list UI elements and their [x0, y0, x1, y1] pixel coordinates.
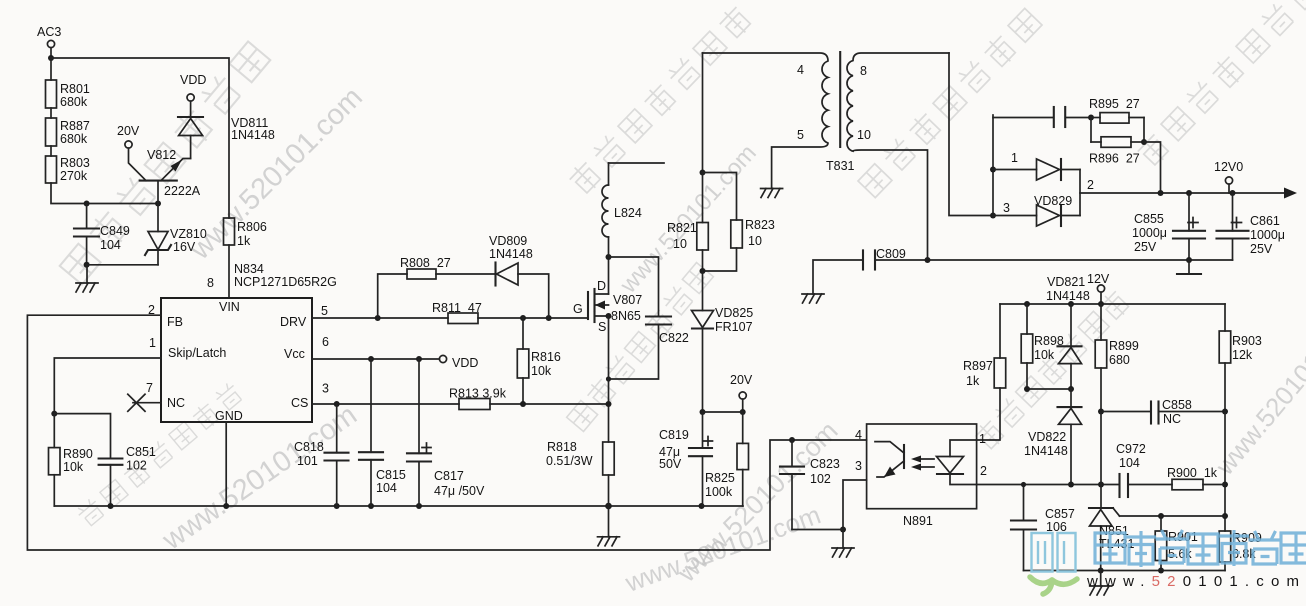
- optocoupler light arrows: [911, 456, 934, 471]
- inductor L824: [602, 163, 642, 257]
- wire AC3 node down to R801: [50, 58, 52, 80]
- diode VD829 upper (pin1): [993, 151, 1080, 180]
- wire REF line: [1120, 515, 1226, 517]
- svg-text:www.520101.com: www.520101.com: [184, 81, 369, 266]
- svg-text:N834: N834: [234, 262, 264, 276]
- svg-text:680: 680: [1109, 353, 1130, 367]
- node C849 top: [84, 201, 90, 207]
- node C822 return: [606, 376, 611, 381]
- svg-text:GND: GND: [215, 409, 243, 423]
- transistor N851 TL431: [1089, 508, 1134, 571]
- node C858/R903: [1222, 409, 1228, 415]
- svg-text:C822: C822: [659, 331, 689, 345]
- wire pin8 to rectifier: [949, 53, 993, 216]
- optocoupler phototransistor: [875, 442, 904, 477]
- node R808 branch left: [375, 315, 381, 321]
- ground under primary bus: [598, 506, 620, 546]
- wire C809 to ground: [813, 260, 862, 294]
- capacitor C822 snubber: [609, 257, 689, 379]
- svg-text:DRV: DRV: [280, 315, 307, 329]
- capacitor C819 47u 50V polarized: [659, 412, 713, 506]
- blue logo layer: [1030, 530, 1306, 594]
- svg-text:0.51/3W: 0.51/3W: [546, 454, 593, 468]
- wire secondary return bus: [876, 259, 1233, 261]
- ground under C809: [802, 294, 824, 303]
- svg-text:4: 4: [797, 63, 804, 77]
- resistor R811 47: [432, 301, 482, 324]
- node R816 top: [520, 315, 526, 321]
- node R899/C858: [1098, 409, 1104, 415]
- node pin1/R890/C851: [51, 411, 57, 417]
- svg-text:VIN: VIN: [219, 300, 240, 314]
- svg-text:R900 1k: R900 1k: [1167, 466, 1218, 480]
- svg-text:C857: C857: [1045, 507, 1075, 521]
- svg-text:6: 6: [322, 335, 329, 349]
- resistor R801 680k: [46, 80, 90, 109]
- svg-text:D: D: [597, 279, 606, 293]
- capacitor C817 47u/50V polarized: [407, 359, 485, 506]
- wire FB pin2 loop to optocoupler pin4: [27, 315, 866, 550]
- node REF right: [1222, 513, 1228, 519]
- svg-text:1N4148: 1N4148: [231, 128, 275, 142]
- svg-text:104: 104: [376, 481, 397, 495]
- svg-text:10: 10: [748, 234, 762, 248]
- svg-text:16V: 16V: [173, 240, 196, 254]
- svg-text:NC: NC: [1163, 412, 1181, 426]
- svg-text:Vcc: Vcc: [284, 347, 305, 361]
- svg-text:NC: NC: [167, 396, 185, 410]
- svg-text:20V: 20V: [730, 373, 753, 387]
- svg-text:R823: R823: [745, 218, 775, 232]
- svg-text:2222A: 2222A: [164, 184, 201, 198]
- svg-text:3: 3: [322, 382, 329, 396]
- svg-text:VD829: VD829: [1034, 194, 1072, 208]
- node C855 top: [1186, 190, 1192, 196]
- node AC3 junction: [48, 55, 54, 61]
- svg-text:8N65: 8N65: [611, 309, 641, 323]
- svg-text:L824: L824: [614, 206, 642, 220]
- svg-text:R821: R821: [667, 221, 697, 235]
- svg-text:R818: R818: [547, 440, 577, 454]
- wire bottom C849 to VZ810: [87, 264, 158, 266]
- svg-text:1N4148: 1N4148: [1046, 289, 1090, 303]
- svg-text:VZ810: VZ810: [170, 227, 207, 241]
- svg-text:12V0: 12V0: [1214, 160, 1243, 174]
- resistor R818 0.51/3W: [546, 440, 614, 506]
- node C861 top: [1230, 190, 1236, 196]
- svg-text:8: 8: [207, 276, 214, 290]
- svg-text:www.520101.com: www.520101.com: [671, 416, 844, 589]
- svg-text:T831: T831: [826, 159, 855, 173]
- diode VD822 1N4148: [1024, 389, 1082, 485]
- svg-text:C972: C972: [1116, 442, 1146, 456]
- svg-text:R803: R803: [60, 156, 90, 170]
- capacitor snubber series: [993, 107, 1091, 127]
- resistor R901 5.6k: [1155, 516, 1198, 571]
- node clamp top: [700, 170, 706, 176]
- svg-text:C823: C823: [810, 457, 840, 471]
- svg-text:100k: 100k: [705, 485, 733, 499]
- capacitor C815 104: [359, 359, 406, 506]
- transistor Q V807 8N65 MOSFET: [573, 279, 642, 334]
- svg-text:C809: C809: [876, 247, 906, 261]
- capacitor C823 102: [780, 440, 843, 530]
- node R901 top: [1158, 513, 1164, 519]
- wire R801-R887: [50, 108, 52, 118]
- diode VD825 FR107: [692, 271, 754, 412]
- ground under pin3: [832, 530, 854, 558]
- resistor R895 27: [1089, 97, 1144, 123]
- node C849 bottom: [84, 262, 90, 268]
- svg-text:FR107: FR107: [715, 320, 753, 334]
- wire GND pin stub: [225, 422, 227, 506]
- node C815 top: [368, 356, 374, 362]
- svg-text:12V: 12V: [1087, 272, 1110, 286]
- resistor R808 27: [400, 256, 451, 279]
- svg-text:3: 3: [855, 459, 862, 473]
- IC pin names: [167, 300, 308, 423]
- wire R806 to pin8: [228, 245, 230, 298]
- resistor R898 10k: [1021, 304, 1064, 389]
- svg-text:1k: 1k: [237, 234, 251, 248]
- node base of V812: [155, 201, 161, 207]
- wire source down to R818: [608, 316, 610, 442]
- terminal VDD top: [180, 73, 206, 101]
- wire L824 top stub: [609, 162, 665, 164]
- wire TL431 cathode: [1100, 412, 1102, 509]
- node snubber out: [1141, 139, 1147, 145]
- node drain: [606, 254, 612, 260]
- svg-text:www.520101.com: www.520101.com: [1086, 573, 1306, 590]
- svg-text:V807: V807: [613, 293, 642, 307]
- svg-text:FB: FB: [167, 315, 183, 329]
- wire drain: [608, 257, 610, 294]
- terminal 20V: [117, 124, 140, 148]
- svg-text:25V: 25V: [1250, 242, 1273, 256]
- svg-text:104: 104: [1119, 456, 1140, 470]
- capacitor C818 101: [294, 404, 349, 506]
- svg-text:VD825: VD825: [715, 306, 753, 320]
- svg-text:R895 27: R895 27: [1089, 97, 1140, 111]
- resistor R803 270k: [46, 156, 90, 183]
- svg-text:2: 2: [980, 464, 987, 478]
- svg-text:VDD: VDD: [180, 73, 206, 87]
- wire 20V to V812 collector: [129, 148, 147, 181]
- svg-text:G: G: [573, 302, 583, 316]
- node bus junctions: [108, 503, 705, 510]
- svg-text:AC3: AC3: [37, 25, 61, 39]
- svg-text:R825: R825: [705, 471, 735, 485]
- wire cathode join: [1079, 170, 1081, 216]
- transistor V812 2222A: [140, 148, 201, 204]
- wire clamp chain from pin4 wire down: [702, 53, 704, 173]
- resistor R900 1k: [1167, 466, 1218, 490]
- svg-text:101: 101: [297, 454, 318, 468]
- wire VD809 to DRV wire: [518, 274, 549, 318]
- node anode lower: [990, 213, 996, 219]
- svg-text:R890: R890: [63, 447, 93, 461]
- node R816 bottom on CS wire: [520, 401, 526, 407]
- pin 7 NC cross: [128, 394, 161, 411]
- resistor R903 12k: [1219, 304, 1262, 412]
- svg-text:N891: N891: [903, 514, 933, 528]
- wire DRV pin5 to gate: [312, 317, 588, 319]
- capacitor C809: [863, 247, 906, 270]
- resistor R909 6.8k: [1219, 531, 1262, 571]
- svg-text:C858: C858: [1162, 398, 1192, 412]
- node R900 right: [1222, 482, 1228, 488]
- svg-text:1: 1: [979, 432, 986, 446]
- resistor R899 680: [1095, 304, 1139, 412]
- wire CS pin3: [312, 403, 609, 405]
- diode VD811 1N4148: [178, 101, 275, 158]
- diode VD829 lower (pin3): [993, 194, 1080, 226]
- ground under C849: [76, 265, 98, 292]
- capacitor C858 NC: [1101, 398, 1225, 426]
- optocoupler N891 box: [867, 424, 977, 509]
- resistor R896 27: [1089, 118, 1144, 166]
- svg-text:R806: R806: [237, 220, 267, 234]
- node pin10 junction: [925, 257, 931, 263]
- svg-text:R887: R887: [60, 119, 90, 133]
- transformer T831 core: [839, 52, 841, 147]
- svg-text:1000μ: 1000μ: [1132, 226, 1167, 240]
- node C855 bottom: [1186, 257, 1192, 263]
- svg-text:102: 102: [126, 459, 147, 473]
- svg-text:R896 27: R896 27: [1089, 152, 1140, 166]
- node C823 top: [789, 437, 795, 443]
- svg-text:VD822: VD822: [1028, 430, 1066, 444]
- resistor R825 100k: [705, 412, 749, 506]
- capacitor C861 1000u 25V polarized: [1217, 193, 1286, 260]
- node C817 top: [416, 356, 422, 362]
- node R901 bottom: [1158, 568, 1164, 574]
- node anode upper: [990, 167, 996, 173]
- node snubber/output: [1158, 190, 1164, 196]
- node join left: [1024, 386, 1030, 392]
- capacitor C857 106: [1011, 485, 1075, 571]
- capacitor C849 104: [74, 204, 130, 265]
- node source/CS junction: [606, 401, 612, 407]
- svg-text:5: 5: [797, 128, 804, 142]
- terminal AC3: [37, 25, 61, 58]
- svg-text:VDD: VDD: [452, 356, 478, 370]
- svg-text:12k: 12k: [1232, 348, 1253, 362]
- resistor R821 10: [667, 173, 708, 272]
- svg-text:270k: 270k: [60, 169, 88, 183]
- wire R887-R803: [50, 146, 52, 156]
- svg-text:102: 102: [810, 472, 831, 486]
- node C857 top: [1021, 482, 1026, 487]
- svg-text:C849: C849: [100, 224, 130, 238]
- wire primary ground bus: [54, 505, 743, 507]
- wire snubber to output: [1144, 142, 1161, 193]
- wire Vcc pin6 to VDD terminal: [312, 358, 439, 360]
- svg-text:R897: R897: [963, 359, 993, 373]
- wire R808 branch: [378, 274, 407, 318]
- svg-text:NCP1271D65R2G: NCP1271D65R2G: [234, 275, 337, 289]
- svg-text:R808 27: R808 27: [400, 256, 451, 270]
- svg-text:1: 1: [149, 336, 156, 350]
- svg-text:2: 2: [1087, 178, 1094, 192]
- svg-text:104: 104: [100, 238, 121, 252]
- node TL431 anode: [1098, 568, 1104, 574]
- svg-text:C851: C851: [126, 445, 156, 459]
- node join right: [1068, 386, 1074, 392]
- svg-text:680k: 680k: [60, 132, 88, 146]
- wire R803 to base node: [51, 183, 158, 204]
- resistor R890 10k: [49, 414, 93, 506]
- wire 12V0 output rail with arrow: [1080, 188, 1297, 199]
- svg-text:C815: C815: [376, 468, 406, 482]
- node CS/C818: [334, 401, 340, 407]
- svg-text:Skip/Latch: Skip/Latch: [168, 346, 226, 360]
- resistor R897 1k: [963, 304, 1006, 440]
- resistor R816 10k: [517, 318, 561, 404]
- node pin3 ground junction: [840, 527, 846, 533]
- svg-text:S: S: [598, 320, 606, 334]
- svg-text:8: 8: [860, 64, 867, 78]
- resistor R887 680k: [46, 118, 90, 146]
- zener VZ810 16V: [145, 204, 207, 265]
- svg-text:C818: C818: [294, 440, 324, 454]
- svg-text:1k: 1k: [966, 374, 980, 388]
- svg-text:5: 5: [321, 304, 328, 318]
- svg-text:CS: CS: [291, 396, 308, 410]
- node VD825/C819/20V junction: [700, 409, 706, 415]
- wire R898/VD821 join: [1027, 388, 1071, 390]
- terminal 20V mid: [730, 373, 753, 412]
- svg-text:VD809: VD809: [489, 234, 527, 248]
- wire 20V node link: [703, 411, 743, 413]
- svg-text:R816: R816: [531, 350, 561, 364]
- wire pin3 to ground: [843, 480, 867, 530]
- svg-text:20V: 20V: [117, 124, 140, 138]
- node clamp bottom: [700, 268, 706, 274]
- svg-text:VD821: VD821: [1047, 275, 1085, 289]
- svg-text:10: 10: [673, 237, 687, 251]
- optocoupler LED: [937, 440, 977, 485]
- optocoupler pin labels: [855, 428, 987, 478]
- node 12V terminal junction: [1098, 301, 1104, 307]
- node VD821 top: [1068, 301, 1074, 307]
- wire node to C851: [54, 414, 110, 459]
- svg-text:10k: 10k: [1034, 348, 1055, 362]
- wire R808 to VD809: [436, 273, 496, 275]
- wire 12V rail: [1000, 303, 1225, 305]
- svg-text:50V: 50V: [659, 457, 682, 471]
- svg-text:7: 7: [146, 381, 153, 395]
- svg-text:47μ /50V: 47μ /50V: [434, 484, 485, 498]
- resistor R823 10: [703, 173, 775, 272]
- svg-text:1000μ: 1000μ: [1250, 228, 1285, 242]
- ground pin5: [761, 189, 783, 198]
- pin number labels: [146, 303, 329, 396]
- node TL431 cathode junction: [1098, 482, 1104, 488]
- diode VD809 1N4148 cathode left: [489, 234, 533, 286]
- wire secondary ground bus2: [1024, 570, 1226, 572]
- wire optocoupler pin2 rail: [977, 484, 1225, 486]
- resistor R813 3.9k: [449, 387, 507, 410]
- node source dot: [606, 313, 612, 319]
- terminal VDD mid: [439, 355, 478, 370]
- node R898 top: [1024, 301, 1030, 307]
- svg-text:4: 4: [855, 428, 862, 442]
- svg-text:10k: 10k: [63, 460, 84, 474]
- svg-text:3: 3: [1003, 201, 1010, 215]
- wire Skip/Latch pin1: [54, 358, 161, 414]
- wire rectifier anode rail: [992, 115, 994, 216]
- node VD809 return: [546, 315, 552, 321]
- node snubber split: [1088, 115, 1094, 121]
- svg-text:R903: R903: [1232, 334, 1262, 348]
- capacitor C972 104: [1116, 442, 1146, 497]
- capacitor C851 102: [99, 445, 156, 506]
- ground under TL431: [1090, 571, 1112, 596]
- svg-text:C855: C855: [1134, 212, 1164, 226]
- resistor R806 1k: [224, 218, 267, 248]
- svg-text:1N4148: 1N4148: [1024, 444, 1068, 458]
- svg-text:C861: C861: [1250, 214, 1280, 228]
- op-amp U1 : controller IC N834 box: [161, 298, 312, 422]
- node R825 top: [740, 409, 746, 415]
- wire AC3 bus to R806 branch: [51, 58, 229, 218]
- label VD821 1N4148: [1046, 275, 1090, 303]
- svg-text:1: 1: [1011, 151, 1018, 165]
- svg-text:R801: R801: [60, 82, 90, 96]
- svg-text:R813 3.9k: R813 3.9k: [449, 387, 507, 401]
- svg-text:10k: 10k: [531, 364, 552, 378]
- svg-text:V812: V812: [147, 148, 176, 162]
- svg-text:10: 10: [857, 128, 871, 142]
- svg-text:R811 47: R811 47: [432, 301, 482, 315]
- terminal 12V0: [1214, 160, 1243, 193]
- terminal 12V: [1087, 272, 1110, 304]
- svg-text:1N4148: 1N4148: [489, 247, 533, 261]
- svg-text:R899: R899: [1109, 339, 1139, 353]
- capacitor C855 1000u 25V polarized: [1132, 193, 1205, 260]
- svg-text:C819: C819: [659, 428, 689, 442]
- chassis bar under C855: [1177, 260, 1201, 274]
- wire right rail down: [1224, 412, 1226, 532]
- transformer T831 secondary winding pins 8-10: [847, 53, 949, 260]
- svg-text:25V: 25V: [1134, 240, 1157, 254]
- diode VD821: [1058, 304, 1082, 389]
- svg-text:680k: 680k: [60, 95, 88, 109]
- transformer T831 primary winding pins 4-5: [703, 53, 829, 189]
- node VD822 bottom: [1068, 482, 1074, 488]
- svg-text:C817: C817: [434, 469, 464, 483]
